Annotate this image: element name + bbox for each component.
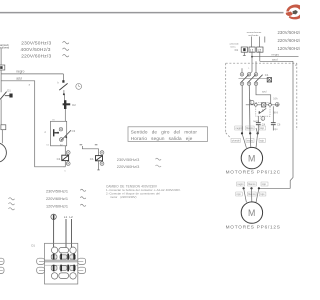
svg-text:230V/50Hz/3: 230V/50Hz/3 [117, 157, 140, 162]
dashed enclosure [226, 63, 297, 137]
svg-text:Horario segun salida eje: Horario segun salida eje [131, 136, 193, 141]
wire [0, 99, 2, 124]
svg-text:am/verde: am/verde [230, 43, 240, 46]
svg-text:D2: D2 [72, 103, 76, 107]
ac tildes single phase [9, 198, 15, 210]
relay switch [259, 108, 267, 114]
svg-text:rojo: rojo [262, 183, 267, 186]
capacitor C6 [272, 106, 274, 122]
svg-text:D1: D1 [7, 89, 11, 93]
svg-text:azul: azul [16, 77, 22, 81]
note cambio de tension [106, 184, 181, 199]
svg-text:230V/50Hz/1: 230V/50Hz/1 [46, 189, 68, 193]
wire azul [1, 81, 63, 167]
svg-text:L1: L1 [64, 215, 68, 219]
svg-text:D1: D1 [31, 244, 35, 248]
svg-text:M: M [248, 153, 255, 163]
svg-text:120V/60Hz/1: 120V/60Hz/1 [46, 204, 68, 208]
svg-text:220V/60Hz/3: 220V/60Hz/3 [278, 38, 301, 43]
timer clock [76, 84, 82, 90]
wires to block [53, 220, 55, 248]
svg-text:220V/60Hz/3: 220V/60Hz/3 [21, 54, 51, 60]
svg-text:blanco: blanco [246, 127, 254, 130]
thermal relay F1 [250, 100, 254, 104]
svg-text:azul: azul [262, 90, 267, 93]
switch D2 [64, 94, 66, 100]
svg-text:MOTORES PP6/12C: MOTORES PP6/12C [226, 170, 281, 175]
contactor C1 poles [240, 73, 258, 86]
linkage [239, 78, 268, 80]
wires into motor1 [242, 133, 246, 147]
svg-text:y/verde: y/verde [232, 140, 241, 143]
top terminals [51, 247, 57, 253]
note box sentido [128, 127, 208, 142]
svg-text:C6: C6 [277, 122, 281, 126]
svg-text:120V/60Hz/3: 120V/60Hz/3 [278, 46, 301, 51]
contact circles [59, 128, 62, 131]
block internal bars [53, 254, 55, 260]
lever to C3 [61, 130, 71, 140]
svg-text:M: M [248, 208, 255, 218]
voltage labels fragment [117, 157, 140, 169]
svg-text:400V/50Hz/3: 400V/50Hz/3 [21, 47, 51, 53]
svg-text:L2: L2 [69, 215, 73, 219]
junctions [241, 132, 243, 134]
svg-text:230V/50Hz/3: 230V/50Hz/3 [21, 41, 51, 47]
svg-text:Sentido de giro del motor: Sentido de giro del motor [131, 130, 198, 135]
svg-text:C1: C1 [90, 157, 94, 161]
svg-text:rojo: rojo [260, 127, 265, 130]
node 2 [261, 117, 265, 121]
wire azul [260, 60, 293, 62]
cut-off block tabs at page edge [0, 258, 4, 264]
left circuit: supply label [0, 43, 10, 50]
svg-text:C1: C1 [265, 73, 269, 77]
svg-text:negro: negro [236, 127, 243, 130]
motor2 wire labels [237, 183, 266, 186]
svg-text:azul/verde: azul/verde [248, 34, 259, 37]
wires below boxes [243, 52, 245, 55]
wire negro [252, 56, 299, 58]
wire [64, 109, 66, 121]
right circuit: supply labels [230, 31, 263, 48]
svg-text:L2: L2 [258, 48, 262, 52]
svg-text:motor (220V/230V): motor (220V/230V) [110, 195, 136, 199]
voltage list 3-phase [21, 41, 52, 60]
svg-text:D1: D1 [235, 48, 239, 52]
svg-text:negro: negro [237, 183, 244, 186]
right return wire [259, 61, 293, 188]
svg-text:L1: L1 [250, 48, 254, 52]
coil C1 fragment (voltage change) [80, 144, 83, 145]
leader wires [251, 37, 253, 48]
voltage list right (clipped at edge) [278, 30, 304, 51]
svg-text:16A: 16A [273, 97, 278, 100]
motor1 wire labels [236, 127, 265, 130]
voltage list 1-phase [46, 189, 68, 208]
ac tildes [63, 42, 69, 57]
right tabs [78, 258, 86, 264]
wire [0, 70, 2, 92]
svg-text:rojo: rojo [260, 193, 265, 196]
svg-text:blanco: blanco [248, 183, 256, 186]
bottom terminals [51, 273, 57, 279]
svg-text:98-8: 98-8 [273, 112, 278, 115]
terminal box motor left [1, 125, 6, 130]
motor M2 [241, 202, 262, 223]
svg-text:C3: C3 [72, 129, 76, 133]
motor M1 [241, 147, 262, 168]
wires into motor2 [244, 188, 247, 202]
svg-text:blanco: blanco [248, 193, 256, 196]
svg-text:negro: negro [272, 52, 280, 56]
svg-text:rojo: rojo [237, 193, 242, 196]
terminal box D1 left [0, 65, 5, 70]
pole wires down [241, 86, 243, 134]
bus band [45, 260, 77, 263]
pole levers [241, 75, 249, 83]
svg-text:C1: C1 [57, 157, 61, 161]
mid terminals upper [51, 255, 57, 259]
coil C1 left [66, 151, 70, 155]
wire [64, 146, 66, 155]
timer contact b [62, 74, 64, 81]
earth terminal [51, 214, 56, 219]
svg-text:azul: azul [272, 57, 278, 61]
mid terminals lower [51, 266, 57, 271]
header rule [0, 12, 284, 14]
svg-text:220V/60Hz/3: 220V/60Hz/3 [117, 164, 140, 169]
wire negro [1, 73, 63, 75]
svg-text:marron/marron: marron/marron [247, 31, 262, 34]
left tabs [37, 258, 45, 264]
wire [1, 130, 3, 144]
svg-text:MOTORES PP6/12S: MOTORES PP6/12S [226, 225, 281, 230]
junctions motor2 [243, 187, 245, 189]
svg-text:220V/60Hz/1: 220V/60Hz/1 [46, 197, 68, 201]
motor M left (clipped) [0, 143, 6, 163]
junction [63, 93, 65, 95]
svg-text:rojo: rojo [260, 140, 265, 143]
logo Sammic swirl [285, 3, 304, 20]
capacitor C4 [257, 116, 259, 122]
wire [0, 48, 2, 65]
svg-text:230V/50Hz/3: 230V/50Hz/3 [278, 30, 301, 35]
svg-text:negro: negro [16, 70, 24, 74]
wire [63, 90, 65, 95]
svg-text:rojo: rojo [274, 128, 279, 131]
